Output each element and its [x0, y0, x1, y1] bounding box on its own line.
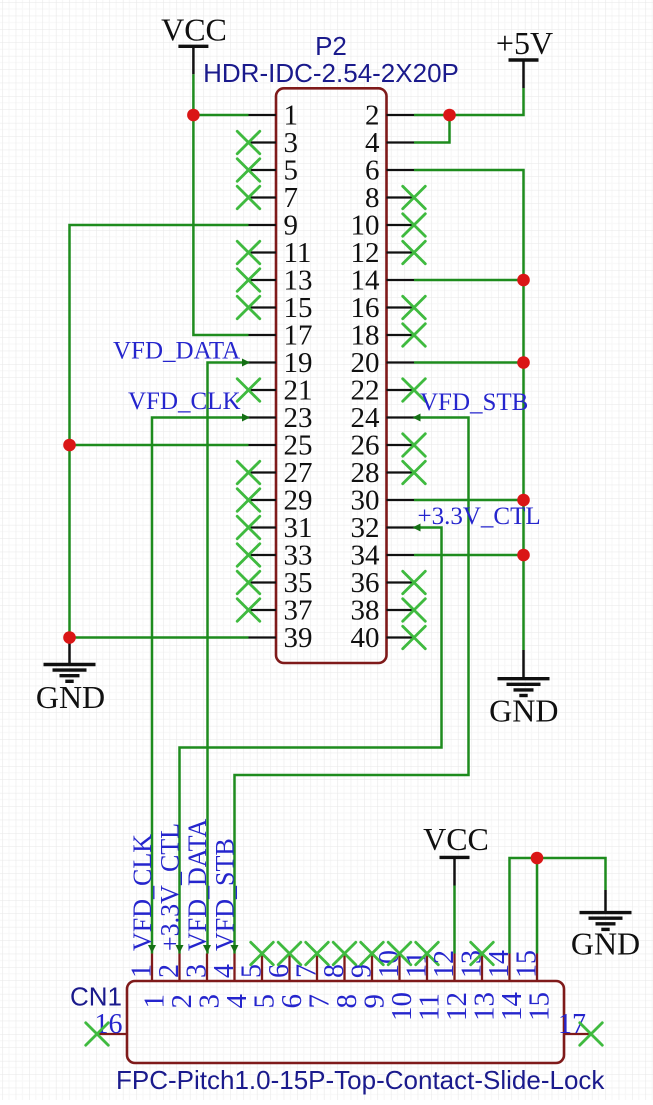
junction pin39 — [63, 631, 76, 644]
svg-text:HDR-IDC-2.54-2X20P: HDR-IDC-2.54-2X20P — [203, 58, 459, 88]
svg-text:15: 15 — [524, 992, 556, 1021]
no-connect pin 13 — [237, 269, 260, 292]
CN1 pin 5 stub — [261, 954, 263, 982]
wire GND net pin9 down left rail — [70, 225, 249, 638]
no-connect pin 27 — [237, 461, 260, 484]
pin 28 stub — [387, 471, 415, 473]
no-connect CN1 pin 16 — [86, 1023, 109, 1046]
power +5V stub — [522, 60, 525, 88]
svg-text:P2: P2 — [315, 31, 347, 61]
ground bottom stub — [604, 890, 607, 913]
junction pin25 — [63, 439, 76, 452]
no-connect pin 10 — [403, 214, 426, 237]
svg-text:8: 8 — [319, 964, 350, 978]
svg-text:VCC: VCC — [423, 821, 489, 857]
junction pin34 — [517, 549, 530, 562]
no-connect pin 35 — [237, 571, 260, 594]
power VCC top stub — [192, 46, 195, 74]
no-connect CN1 pin 17 — [580, 1023, 603, 1046]
wire CN1 pin15 branch — [536, 858, 539, 954]
no-connect CN1 pin 6 — [278, 942, 301, 965]
junction pin20 — [517, 356, 530, 369]
wire CN1 pin14 to GND — [510, 858, 606, 954]
no-connect pin 37 — [237, 599, 260, 622]
pin 5 stub — [249, 169, 277, 171]
CN1 pin 8 stub — [343, 954, 345, 982]
pin 11 stub — [249, 251, 277, 253]
pin 18 stub — [387, 334, 415, 336]
svg-text:+3.3V_CTL: +3.3V_CTL — [156, 823, 185, 951]
pin 26 stub — [387, 444, 415, 446]
ground right symbol — [498, 679, 550, 696]
wire pin34 to right rail — [414, 554, 524, 557]
svg-text:+5V: +5V — [496, 25, 553, 61]
pin 17 stub — [249, 334, 277, 336]
svg-text:VFD_STB: VFD_STB — [420, 389, 528, 416]
wire +5V branch to pin4 — [414, 115, 450, 143]
no-connect CN1 pin 13 — [471, 942, 494, 965]
CN1 pin 17 stub — [564, 1033, 591, 1035]
svg-text:14: 14 — [484, 950, 515, 978]
svg-text:GND: GND — [36, 679, 105, 715]
wire VCC net pin1 to pin17 — [193, 115, 248, 335]
no-connect pin 31 — [237, 516, 260, 539]
CN1 pin 16 stub — [97, 1033, 127, 1035]
connector P2 body — [276, 88, 387, 663]
pin 9 stub — [249, 224, 277, 226]
no-connect pin 3 — [237, 131, 260, 154]
ground bottom symbol — [580, 913, 632, 930]
net arrow pin23 — [242, 414, 250, 422]
svg-text:VFD_CLK: VFD_CLK — [128, 834, 157, 951]
pin 24 stub — [387, 416, 415, 418]
CN1 pin 15 stub — [536, 954, 538, 982]
wire VCC to CN1 pin12 — [453, 886, 456, 954]
pin 13 stub — [249, 279, 277, 281]
pin 19 stub — [249, 361, 277, 363]
pin 7 stub — [249, 196, 277, 198]
junction CN1 pin15 — [531, 852, 544, 865]
pin 14 stub — [387, 279, 415, 281]
CN1 pin 10 stub — [398, 954, 400, 982]
svg-text:40: 40 — [351, 622, 380, 654]
no-connect pin 7 — [237, 186, 260, 209]
connector CN1 body — [127, 981, 564, 1063]
no-connect CN1 pin 10 — [388, 942, 411, 965]
wire +5V to pin2 — [414, 88, 524, 115]
svg-text:39: 39 — [284, 622, 313, 654]
svg-text:3: 3 — [182, 964, 213, 978]
ground left symbol — [44, 665, 96, 682]
wire GND net to pin25 — [70, 444, 249, 447]
CN1 pin 2 stub — [178, 954, 180, 982]
no-connect pin 21 — [237, 379, 260, 402]
CN1 pin 11 stub — [426, 954, 428, 982]
pin 21 stub — [249, 389, 277, 391]
no-connect pin 28 — [403, 461, 426, 484]
power VCC top bar — [178, 45, 208, 48]
ground left stub — [68, 638, 71, 665]
pin 16 stub — [387, 306, 415, 308]
pin 34 stub — [387, 554, 415, 556]
svg-text:VFD_DATA: VFD_DATA — [183, 819, 212, 951]
CN1 pin 7 stub — [316, 954, 318, 982]
pin 38 stub — [387, 609, 415, 611]
wire pin14 to right rail — [414, 279, 524, 282]
pin 36 stub — [387, 581, 415, 583]
power +5V bar — [509, 58, 539, 61]
no-connect pin 40 — [403, 626, 426, 649]
no-connect pin 11 — [237, 241, 260, 264]
wire +3.3V_CTL pin32 to CN1 pin2 — [180, 528, 442, 954]
no-connect pin 33 — [237, 544, 260, 567]
no-connect CN1 pin 9 — [361, 942, 384, 965]
net arrow pin24 — [413, 414, 421, 422]
no-connect pin 5 — [237, 159, 260, 182]
wire VFD_DATA pin19 to CN1 pin3 — [208, 363, 249, 954]
no-connect pin 12 — [403, 241, 426, 264]
pin 20 stub — [387, 361, 415, 363]
pin 15 stub — [249, 306, 277, 308]
net arrow CN1 pin4 — [231, 945, 239, 953]
power VCC bottom bar — [440, 856, 470, 859]
pin 8 stub — [387, 196, 415, 198]
svg-text:7: 7 — [292, 964, 323, 978]
no-connect pin 16 — [403, 296, 426, 319]
pin 31 stub — [249, 526, 277, 528]
pin 12 stub — [387, 251, 415, 253]
pin 35 stub — [249, 581, 277, 583]
svg-text:FPC-Pitch1.0-15P-Top-Contact-S: FPC-Pitch1.0-15P-Top-Contact-Slide-Lock — [116, 1065, 605, 1095]
junction pin1/VCC — [187, 109, 200, 122]
pin 39 stub — [249, 636, 277, 638]
svg-text:6: 6 — [264, 964, 295, 978]
no-connect CN1 pin 5 — [251, 942, 274, 965]
pin 22 stub — [387, 389, 415, 391]
pin 4 stub — [387, 141, 415, 143]
pin 23 stub — [249, 416, 277, 418]
no-connect pin 38 — [403, 599, 426, 622]
pin 3 stub — [249, 141, 277, 143]
svg-text:5: 5 — [237, 964, 268, 978]
net arrow pin32 — [413, 524, 421, 532]
net arrow CN1 pin1 — [148, 945, 156, 953]
svg-text:CN1: CN1 — [70, 982, 122, 1012]
svg-text:+3.3V_CTL: +3.3V_CTL — [418, 503, 541, 530]
svg-text:VCC: VCC — [161, 11, 227, 47]
net arrow CN1 pin3 — [203, 945, 211, 953]
pin 30 stub — [387, 499, 415, 501]
svg-text:15: 15 — [512, 950, 543, 978]
CN1 pin 9 stub — [371, 954, 373, 982]
CN1 pin 1 stub — [151, 954, 153, 982]
junction pin30 — [517, 494, 530, 507]
pin 1 stub — [249, 114, 277, 116]
pin 25 stub — [249, 444, 277, 446]
no-connect pin 15 — [237, 296, 260, 319]
CN1 pin 13 stub — [481, 954, 483, 982]
no-connect pin 36 — [403, 571, 426, 594]
pin 37 stub — [249, 609, 277, 611]
junction pin2/+5V — [443, 109, 456, 122]
wire pin30 to right rail — [414, 499, 524, 502]
junction pin14 — [517, 274, 530, 287]
svg-text:GND: GND — [489, 693, 558, 729]
wire pin20 to right rail — [414, 361, 524, 364]
no-connect CN1 pin 7 — [306, 942, 329, 965]
wire VCC stub to pin1 net — [192, 74, 195, 115]
svg-text:GND: GND — [571, 925, 640, 961]
pin 27 stub — [249, 471, 277, 473]
pin 6 stub — [387, 169, 415, 171]
svg-text:VFD_CLK: VFD_CLK — [128, 388, 241, 415]
wire GND net pin6 down right rail — [414, 170, 524, 650]
no-connect pin 22 — [403, 379, 426, 402]
no-connect pin 18 — [403, 324, 426, 347]
ground right stub — [522, 650, 525, 679]
svg-text:4: 4 — [209, 964, 240, 978]
pin 2 stub — [387, 114, 415, 116]
wire VFD_CLK pin23 to CN1 pin1 — [152, 418, 249, 954]
CN1 pin 6 stub — [288, 954, 290, 982]
svg-text:VFD_DATA: VFD_DATA — [113, 338, 240, 365]
wire VFD_STB pin24 to CN1 pin4 — [235, 418, 469, 954]
no-connect CN1 pin 11 — [416, 942, 439, 965]
CN1 pin 3 stub — [206, 954, 208, 982]
CN1 pin 4 stub — [233, 954, 235, 982]
svg-text:1: 1 — [127, 964, 158, 978]
no-connect pin 26 — [403, 434, 426, 457]
no-connect pin 8 — [403, 186, 426, 209]
net arrow pin19 — [242, 359, 250, 367]
pin 33 stub — [249, 554, 277, 556]
no-connect CN1 pin 8 — [333, 942, 356, 965]
power VCC bottom stub — [453, 857, 456, 885]
svg-text:12: 12 — [429, 950, 460, 978]
no-connect pin 29 — [237, 489, 260, 512]
svg-text:2: 2 — [154, 964, 185, 978]
pin 40 stub — [387, 636, 415, 638]
CN1 pin 12 stub — [453, 954, 455, 982]
pin 10 stub — [387, 224, 415, 226]
net arrow CN1 pin2 — [176, 945, 184, 953]
svg-text:9: 9 — [347, 964, 378, 978]
pin 29 stub — [249, 499, 277, 501]
wire GND net to pin39 — [70, 636, 249, 639]
svg-text:VFD_STB: VFD_STB — [211, 838, 240, 951]
CN1 pin 14 stub — [508, 954, 510, 982]
pin 32 stub — [387, 526, 415, 528]
